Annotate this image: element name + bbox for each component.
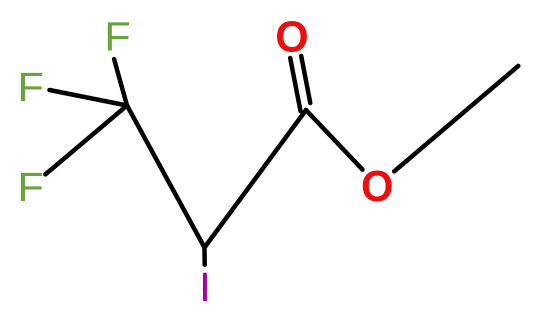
- wire C4-C2 bond: [127, 106, 205, 248]
- wire C1-O2 bond: [306, 110, 363, 170]
- svg-text:O: O: [275, 13, 308, 61]
- wire C2-C1 bond: [205, 110, 307, 248]
- wire C1=O1 double bond line a (right, shortened): [301, 56, 310, 103]
- svg-text:O: O: [361, 162, 394, 211]
- svg-text:F: F: [104, 13, 130, 59]
- svg-text:F: F: [17, 64, 43, 110]
- wire F2-C4 bond: [50, 90, 128, 106]
- wire O2-CH3 bond: [394, 66, 518, 171]
- wire F3-C4 bond: [45, 106, 127, 175]
- wire C2-I bond: [202, 248, 207, 265]
- wire F1-C4 bond: [114, 59, 127, 105]
- svg-text:F: F: [17, 164, 43, 210]
- svg-text:I: I: [199, 264, 211, 309]
- wire C1=O1 double bond line b (left, full): [290, 58, 300, 111]
